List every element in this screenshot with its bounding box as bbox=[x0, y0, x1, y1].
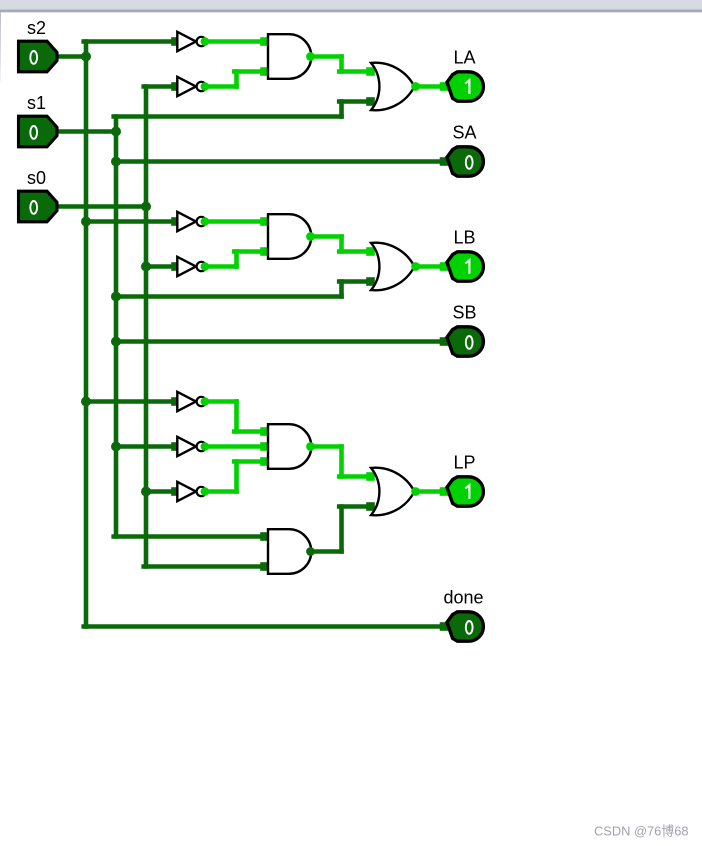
wire s2 trunk up bbox=[84, 42, 89, 57]
wire s1 trunk C bbox=[114, 297, 119, 342]
junction s0-U4 bbox=[141, 262, 151, 272]
input pin s0 bbox=[19, 191, 58, 222]
wire s1 row east bbox=[114, 114, 342, 119]
wire NOT U7 out bbox=[207, 489, 237, 494]
wire s0 trunk up bbox=[144, 87, 149, 207]
wire s2 to NOT U5 bbox=[86, 397, 180, 406]
svg-text:LB: LB bbox=[453, 228, 475, 248]
wire s1 trunk E bbox=[114, 447, 119, 537]
wire AND A1 to OR O1 bbox=[339, 67, 375, 76]
wire s0 trunk A bbox=[144, 207, 149, 267]
svg-text:SA: SA bbox=[452, 123, 476, 143]
wire s2 to NOT U3 bbox=[86, 217, 180, 226]
wire NOT U4 jog bbox=[234, 252, 239, 267]
svg-text:done: done bbox=[443, 588, 483, 608]
toolbar bottom edge bbox=[0, 0, 702, 13]
inverter U6 bbox=[177, 437, 209, 456]
svg-text:LA: LA bbox=[453, 48, 475, 68]
junction s0-U7 bbox=[141, 487, 151, 497]
wire s0 to AND A4 bbox=[144, 562, 269, 571]
wire AND A2 to OR O2 bbox=[339, 247, 375, 256]
wire NOT U4 to AND A2 bbox=[234, 247, 269, 256]
output pin SB bbox=[447, 327, 483, 356]
input pin s2 bbox=[19, 41, 58, 72]
junction s1-SA bbox=[111, 157, 121, 167]
output pin SA bbox=[447, 147, 483, 176]
wire AND A2 jog bbox=[339, 237, 344, 252]
junction s1-SB bbox=[111, 337, 121, 347]
wire s1 trunk up bbox=[114, 117, 119, 132]
wire OR O1 to LA bbox=[416, 82, 449, 91]
wire s0 to NOT U7 bbox=[146, 487, 180, 496]
wire s1 trunk B bbox=[114, 162, 119, 297]
junction s0-pin bbox=[141, 202, 151, 212]
wire s0 to NOT U2 bbox=[144, 82, 180, 91]
inverter U5 bbox=[177, 392, 209, 411]
wire s2 trunk B bbox=[84, 222, 89, 402]
svg-text:s0: s0 bbox=[27, 168, 46, 188]
wire AND A1 out bbox=[311, 54, 341, 59]
inverter U3 bbox=[177, 212, 209, 231]
wire SA wire bbox=[116, 157, 448, 166]
svg-text:s1: s1 bbox=[27, 93, 46, 113]
wire NOT U4 out bbox=[207, 264, 237, 269]
wire NOT U5 to AND A3 bbox=[234, 427, 269, 436]
output pin LA bbox=[447, 72, 483, 101]
wire s2 trunk C bbox=[84, 402, 89, 627]
wire s2 to NOT U1 bbox=[84, 37, 180, 46]
wire s0 trunk C bbox=[144, 492, 149, 567]
wire NOT U5 jog bbox=[234, 402, 239, 432]
output pin LB bbox=[447, 252, 483, 281]
wire AND A3 out bbox=[311, 444, 341, 449]
wire s1 pin to junction bbox=[57, 129, 116, 134]
inverter U1 bbox=[177, 32, 209, 51]
wire s2 trunk A bbox=[84, 57, 89, 222]
junction s1-pin bbox=[111, 127, 121, 137]
wire s1 jog up 2 bbox=[339, 282, 344, 297]
wire s1 to OR O2 east bbox=[114, 294, 342, 299]
wire s1 to OR O2 bbox=[339, 277, 375, 286]
input pin s1 bbox=[19, 116, 58, 147]
junction s1-U6 bbox=[111, 442, 121, 452]
wire s2 pin to junction bbox=[57, 54, 86, 59]
wire OR O3 to LP bbox=[416, 487, 449, 496]
wire NOT U6 out bbox=[207, 442, 269, 451]
AND gate A4 bbox=[268, 529, 315, 574]
wire NOT U7 to AND A3 bbox=[234, 457, 269, 466]
wire SB wire bbox=[116, 337, 448, 346]
junction s2-pin bbox=[81, 52, 91, 62]
wire s1 to OR O1 bbox=[339, 97, 375, 106]
wire done wire bbox=[84, 622, 449, 631]
inverter U4 bbox=[177, 257, 209, 276]
svg-text:s2: s2 bbox=[27, 18, 46, 38]
inverter U2 bbox=[177, 77, 209, 96]
OR gate O3 bbox=[371, 468, 420, 516]
left panel edge shadow bbox=[0, 12, 1, 82]
wire NOT U2 to AND A1 bbox=[234, 67, 269, 76]
wire NOT U7 jog bbox=[234, 462, 239, 492]
wire s1 jog up bbox=[339, 102, 344, 117]
wire s0 pin to junction bbox=[57, 204, 146, 209]
output pin done bbox=[447, 612, 483, 641]
wire s0 trunk B bbox=[144, 267, 149, 492]
wire s1 trunk D bbox=[114, 342, 119, 447]
junction s1-O2 bbox=[111, 292, 121, 302]
svg-text:LP: LP bbox=[453, 453, 475, 473]
wire AND A1 jog bbox=[339, 57, 344, 72]
junction s2-U5 bbox=[81, 397, 91, 407]
svg-text:CSDN @76博68: CSDN @76博68 bbox=[594, 823, 689, 838]
wire AND A3 to OR O3 bbox=[339, 472, 375, 481]
output pin LP bbox=[447, 477, 483, 506]
wire OR O2 to LB bbox=[416, 262, 449, 271]
wire AND A4 out bbox=[311, 549, 341, 554]
wire AND A2 out bbox=[311, 234, 341, 239]
svg-text:SB: SB bbox=[452, 303, 476, 323]
wire NOT U3 out bbox=[207, 217, 269, 226]
AND gate A1 bbox=[268, 34, 315, 79]
wire AND A3 jog bbox=[339, 447, 344, 477]
wire NOT U2 out bbox=[207, 84, 237, 89]
wire NOT U2 jog bbox=[234, 72, 239, 87]
wire NOT U5 out bbox=[207, 399, 237, 404]
wire s0 to NOT U4 bbox=[146, 262, 180, 271]
wire NOT U1 out bbox=[207, 37, 269, 46]
junction s2-U3 bbox=[81, 217, 91, 227]
wire s1 to NOT U6 bbox=[116, 442, 180, 451]
wire s1 to AND A4 bbox=[114, 532, 269, 541]
wire AND A4 to OR O3 bbox=[339, 502, 375, 511]
OR gate O1 bbox=[371, 63, 420, 111]
AND gate A3 bbox=[268, 424, 315, 469]
AND gate A2 bbox=[268, 214, 315, 259]
wire s1 trunk A bbox=[114, 132, 119, 162]
wire AND A4 jog bbox=[339, 507, 344, 552]
OR gate O2 bbox=[371, 243, 420, 291]
inverter U7 bbox=[177, 482, 209, 501]
